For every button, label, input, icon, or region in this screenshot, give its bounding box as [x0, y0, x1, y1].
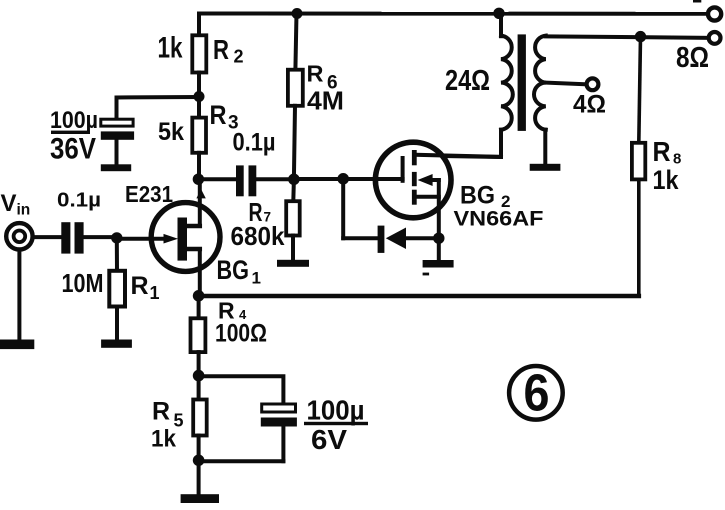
transistor BG2 VN66AF MOSFET — [375, 142, 499, 238]
junction node S (BG1 source/R4) — [193, 290, 205, 302]
svg-text:2: 2 — [234, 46, 244, 66]
wire source bus BG1 to R8 — [199, 294, 639, 299]
svg-text:VN66AF: VN66AF — [454, 206, 544, 230]
svg-text:in: in — [17, 202, 31, 219]
svg-text:8Ω: 8Ω — [676, 42, 709, 74]
svg-text:R: R — [131, 272, 149, 300]
svg-text:100µ: 100µ — [307, 395, 365, 426]
diode gate protection — [343, 179, 439, 253]
svg-text:10M: 10M — [62, 268, 104, 298]
svg-text:R: R — [152, 398, 170, 426]
wire node B to coupling capacitor — [198, 177, 236, 181]
junction node H (R4/R5/C) — [193, 370, 205, 382]
wire node C to node D — [294, 177, 343, 181]
figure number 6 — [509, 365, 563, 423]
ground (R5) — [181, 460, 219, 503]
svg-text:4Ω: 4Ω — [573, 91, 606, 119]
svg-text:0.1µ: 0.1µ — [57, 190, 101, 212]
wire BG2 drain to primary — [444, 156, 501, 157]
svg-text:R: R — [213, 34, 229, 65]
stray mark top edge — [693, 0, 701, 3]
svg-text:5k: 5k — [158, 118, 184, 146]
label 100u/6V — [304, 395, 368, 456]
ground (secondary) — [530, 130, 561, 171]
svg-text:680k: 680k — [231, 221, 286, 251]
svg-text:R: R — [653, 136, 671, 167]
terminal supply positive — [708, 7, 721, 20]
wire center tap — [546, 83, 586, 85]
junction dot transformer primary top — [493, 8, 504, 19]
resistor R6 — [288, 14, 303, 180]
svg-text:1k: 1k — [151, 426, 176, 453]
junction node E (diode/source/ground) — [433, 233, 444, 244]
svg-text:1k: 1k — [158, 32, 183, 65]
resistor R3 — [192, 97, 206, 180]
transistor BG1 E231 JFET — [117, 179, 220, 296]
svg-text:100µ: 100µ — [50, 107, 98, 134]
wire secondary top to 8R terminal — [546, 36, 708, 37]
junction node A (R2/R3/decoupling) — [194, 91, 205, 102]
resistor R4 — [191, 296, 206, 376]
capacitor 0.1u input — [61, 222, 83, 253]
resistor R7 — [286, 179, 300, 259]
ground (100u cap) — [101, 164, 131, 171]
svg-text:0.1µ: 0.1µ — [233, 128, 276, 156]
junction node D (BG2 gate/diode) — [337, 173, 349, 185]
resistor R8 — [632, 37, 645, 296]
wire capacitor to node C — [256, 177, 294, 181]
svg-text:V: V — [1, 190, 17, 217]
svg-text:36V: 36V — [50, 132, 96, 165]
junction dot R6 top — [292, 8, 303, 19]
label 100u/36V — [50, 107, 98, 165]
capacitor 100u/6V — [261, 404, 297, 461]
wire cap to node G — [84, 235, 117, 239]
junction node B (R3/BG1 drain/C2) — [193, 174, 204, 185]
wire cap bottom to node I — [199, 459, 284, 463]
transformer secondary winding — [534, 36, 546, 130]
transformer core — [518, 34, 526, 130]
capacitor C 100u/36V — [101, 119, 134, 164]
resistor R2 — [192, 14, 206, 97]
svg-text:1: 1 — [252, 269, 261, 288]
wire input terminal to cap — [33, 235, 61, 239]
svg-text:BG: BG — [217, 255, 250, 285]
wire node D to BG2 gate — [343, 177, 402, 181]
svg-text:6: 6 — [524, 365, 550, 423]
junction node G (gate/R1) — [111, 232, 122, 243]
svg-text:100Ω: 100Ω — [215, 320, 267, 348]
svg-text:24Ω: 24Ω — [445, 65, 490, 97]
resistor R1 — [109, 238, 125, 340]
junction node I (R5 bottom/ground) — [193, 455, 205, 467]
resistor R5 — [193, 376, 207, 461]
terminal 8R — [709, 32, 721, 44]
junction node C (R6/R7) — [288, 174, 300, 186]
svg-text:1: 1 — [150, 283, 160, 303]
svg-text:1k: 1k — [653, 165, 680, 195]
junction node F (8R line / R8) — [635, 31, 646, 42]
terminal 4R — [587, 78, 599, 90]
wire node A to capacitor 100u/36V — [117, 97, 200, 119]
wire supply rail top — [199, 12, 708, 16]
ground (input) — [0, 250, 34, 350]
capacitor 0.1u interstage — [236, 165, 256, 196]
svg-text:6V: 6V — [311, 424, 347, 455]
input terminal Vin — [6, 223, 32, 249]
ground (R1) — [101, 340, 132, 348]
svg-text:R: R — [307, 61, 324, 87]
svg-text:BG: BG — [460, 182, 495, 210]
transformer T1 primary winding 24R — [501, 13, 513, 157]
svg-text:R: R — [210, 100, 227, 130]
ground (BG2 source) — [423, 238, 454, 275]
ground (R7) — [277, 260, 309, 267]
svg-text:4M: 4M — [307, 88, 344, 116]
wire node H to bypass cap — [199, 376, 284, 404]
svg-text:E231: E231 — [125, 181, 173, 207]
